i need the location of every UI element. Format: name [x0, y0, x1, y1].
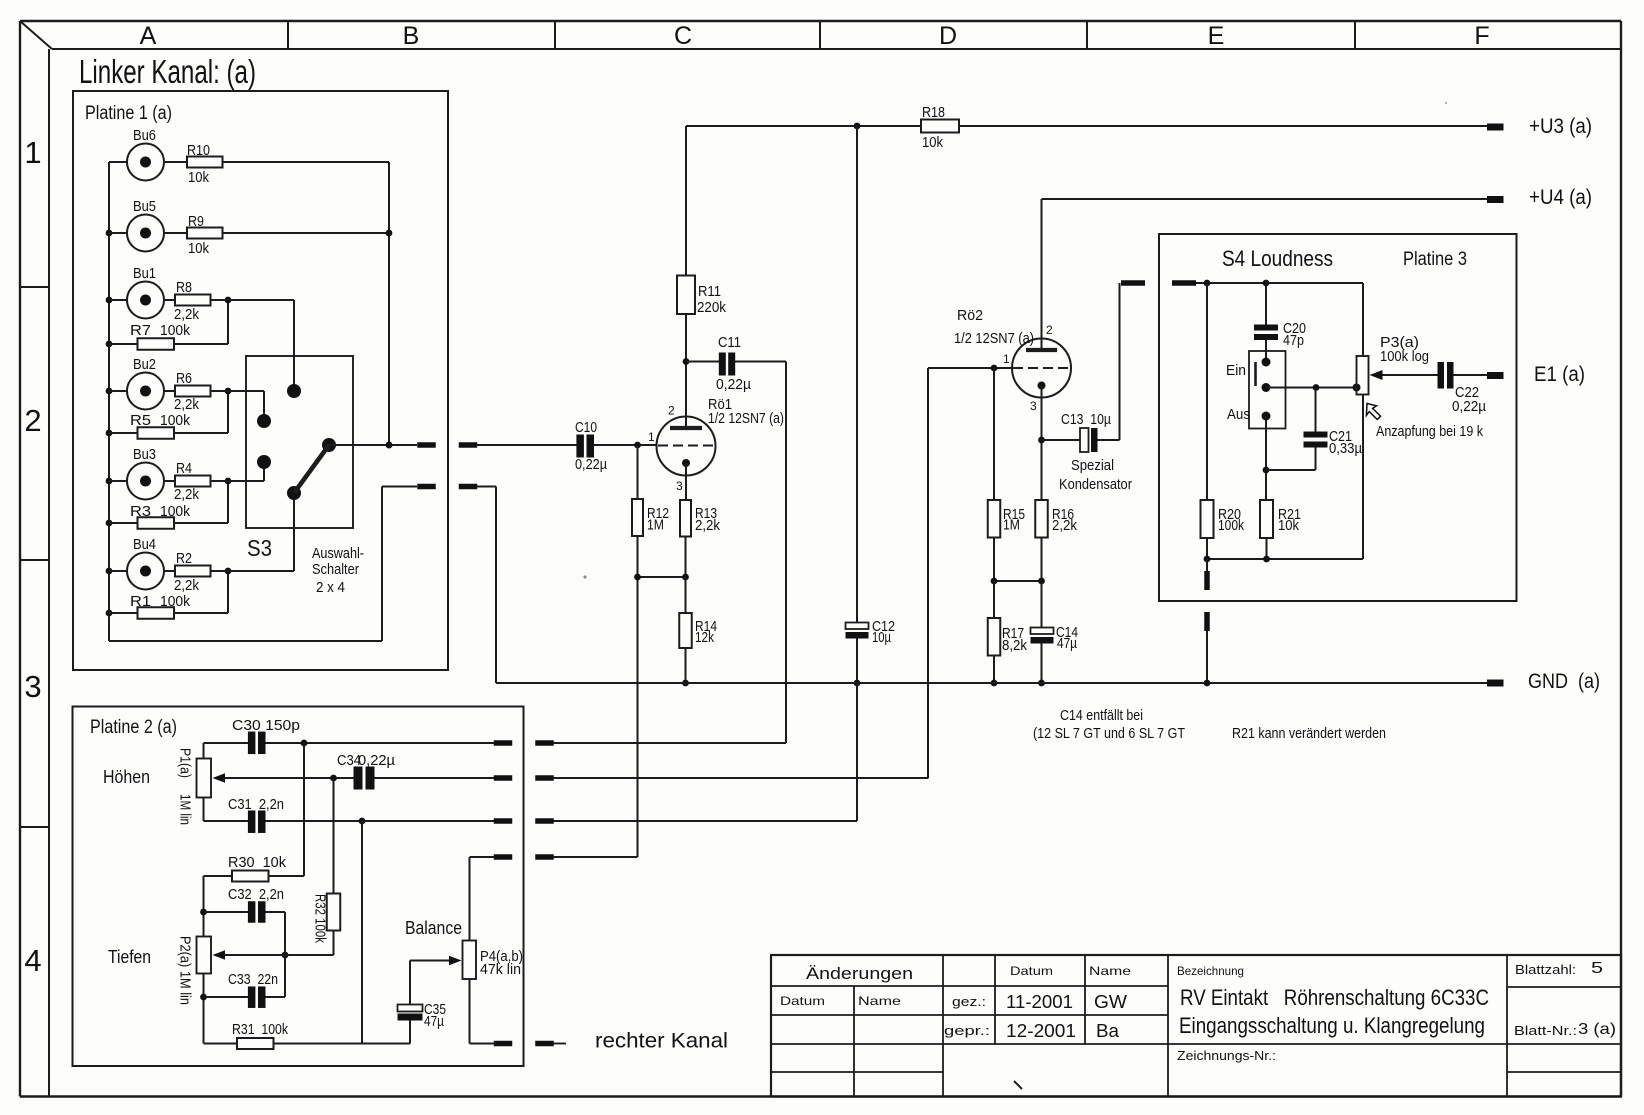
svg-text:3: 3: [676, 479, 683, 493]
svg-text:C11: C11: [718, 335, 741, 351]
svg-text:47k lin: 47k lin: [480, 962, 521, 978]
svg-text:Linker Kanal: (a): Linker Kanal: (a): [79, 53, 256, 90]
svg-text:R11: R11: [698, 284, 721, 300]
svg-text:47µ: 47µ: [1057, 636, 1078, 652]
svg-text:Kondensator: Kondensator: [1059, 477, 1132, 493]
svg-text:2,2k: 2,2k: [174, 397, 200, 413]
svg-text:Name: Name: [1089, 964, 1131, 978]
svg-text:1: 1: [648, 430, 655, 444]
svg-text:10k: 10k: [922, 135, 944, 151]
svg-text:Höhen: Höhen: [103, 767, 150, 787]
svg-text:R4: R4: [176, 461, 192, 477]
svg-text:R6: R6: [176, 371, 192, 387]
svg-text:1: 1: [24, 135, 41, 170]
svg-text:R18: R18: [922, 105, 945, 121]
svg-text:Schalter: Schalter: [312, 561, 359, 578]
svg-text:100k: 100k: [160, 594, 191, 610]
svg-text:100k: 100k: [160, 323, 191, 339]
svg-text:100k: 100k: [160, 413, 191, 429]
svg-text:100k log: 100k log: [1380, 349, 1429, 365]
svg-text:Anzapfung bei 19 k: Anzapfung bei 19 k: [1376, 424, 1484, 440]
svg-text:Aus: Aus: [1227, 407, 1250, 423]
svg-text:Änderungen: Änderungen: [806, 964, 913, 983]
svg-text:Bezeichnung: Bezeichnung: [1177, 964, 1244, 978]
svg-text:0,22µ: 0,22µ: [716, 377, 752, 393]
svg-text:1/2 12SN7 (a): 1/2 12SN7 (a): [954, 331, 1034, 347]
svg-text:Bu4: Bu4: [133, 537, 156, 553]
svg-text:F: F: [1474, 22, 1489, 50]
svg-text:2: 2: [1046, 323, 1053, 337]
svg-text:Bu6: Bu6: [133, 128, 156, 144]
svg-text:S4 Loudness: S4 Loudness: [1222, 246, 1333, 271]
svg-text:Rö2: Rö2: [957, 308, 983, 324]
svg-text:+U3 (a): +U3 (a): [1529, 115, 1592, 138]
svg-text:rechter Kanal: rechter Kanal: [595, 1030, 728, 1053]
svg-text:P1(a): P1(a): [177, 748, 193, 778]
svg-text:100k: 100k: [160, 504, 191, 520]
svg-text:12-2001: 12-2001: [1006, 1021, 1076, 1041]
svg-text:1M lin: 1M lin: [177, 794, 193, 825]
svg-text:C31 2,2n: C31 2,2n: [228, 797, 284, 813]
svg-text:2,2k: 2,2k: [1052, 518, 1078, 534]
svg-text:B: B: [403, 22, 420, 50]
svg-text:C32 2,2n: C32 2,2n: [228, 887, 284, 903]
svg-text:R7: R7: [130, 323, 151, 339]
svg-text:12k: 12k: [695, 630, 715, 646]
svg-text:C10: C10: [575, 420, 597, 436]
svg-text:Bu3: Bu3: [133, 447, 156, 463]
svg-text:Blattzahl:: Blattzahl:: [1515, 963, 1576, 977]
svg-text:R32 100k: R32 100k: [312, 894, 328, 944]
svg-text:R30 10k: R30 10k: [228, 855, 287, 871]
svg-text:0,22µ: 0,22µ: [358, 753, 396, 769]
svg-text:Ein: Ein: [1226, 363, 1246, 379]
svg-text:R2: R2: [176, 551, 192, 567]
svg-text:100k: 100k: [1218, 518, 1245, 534]
svg-text:GND (a): GND (a): [1528, 670, 1600, 693]
svg-text:Blatt-Nr.:: Blatt-Nr.:: [1514, 1024, 1577, 1038]
svg-text:R10: R10: [187, 143, 210, 159]
svg-text:R1: R1: [130, 594, 151, 610]
svg-text:R5: R5: [130, 413, 151, 429]
svg-text:C14 entfällt bei: C14 entfällt bei: [1060, 708, 1143, 724]
svg-text:gez.:: gez.:: [952, 995, 986, 1009]
svg-text:2,2k: 2,2k: [174, 487, 200, 503]
svg-text:2,2k: 2,2k: [174, 578, 200, 594]
svg-text:D: D: [939, 22, 957, 50]
svg-text:R8: R8: [176, 280, 192, 296]
svg-text:Spezial: Spezial: [1071, 458, 1114, 474]
svg-text:2,2k: 2,2k: [695, 518, 721, 534]
svg-text:1M: 1M: [647, 518, 664, 534]
svg-text:A: A: [140, 22, 157, 50]
svg-text:R3: R3: [130, 504, 151, 520]
svg-text:11-2001: 11-2001: [1006, 992, 1073, 1012]
svg-text:0,33µ: 0,33µ: [1329, 441, 1363, 457]
svg-text:E: E: [1208, 22, 1225, 50]
svg-text:220k: 220k: [697, 300, 727, 316]
svg-text:10k: 10k: [188, 241, 210, 257]
svg-text:Zeichnungs-Nr.:: Zeichnungs-Nr.:: [1177, 1049, 1276, 1063]
svg-text:47p: 47p: [1283, 333, 1304, 349]
svg-text:P2(a) 1M lin: P2(a) 1M lin: [177, 936, 193, 1005]
svg-text:C30 150p: C30 150p: [232, 718, 300, 734]
svg-text:10k: 10k: [1278, 518, 1300, 534]
svg-text:1: 1: [1003, 352, 1010, 366]
svg-text:0,22µ: 0,22µ: [575, 457, 608, 473]
svg-text:Name: Name: [858, 994, 901, 1008]
svg-text:RV Eintakt Röhrenschaltung 6: RV Eintakt Röhrenschaltung 6C33C: [1180, 985, 1489, 1010]
svg-text:GW: GW: [1094, 992, 1127, 1012]
svg-text:Platine 3: Platine 3: [1403, 249, 1467, 270]
svg-text:1/2 12SN7 (a): 1/2 12SN7 (a): [708, 411, 784, 427]
svg-text:10µ: 10µ: [872, 630, 891, 646]
svg-text:3: 3: [24, 669, 41, 704]
svg-text:R31 100k: R31 100k: [232, 1022, 289, 1038]
svg-text:S3: S3: [247, 535, 272, 561]
svg-text:Balance: Balance: [405, 918, 462, 938]
svg-text:C33 22n: C33 22n: [228, 972, 278, 988]
svg-text:(12 SL 7 GT und 6 SL 7 GT: (12 SL 7 GT und 6 SL 7 GT: [1033, 726, 1185, 742]
svg-text:R9: R9: [188, 214, 204, 230]
svg-text:E1 (a): E1 (a): [1534, 363, 1585, 386]
svg-text:C13 10µ: C13 10µ: [1061, 412, 1112, 428]
svg-text:Tiefen: Tiefen: [108, 947, 151, 967]
svg-text:2: 2: [668, 404, 675, 418]
svg-text:Bu5: Bu5: [133, 199, 156, 215]
svg-text:+U4 (a): +U4 (a): [1529, 186, 1592, 209]
svg-text:0,22µ: 0,22µ: [1452, 399, 1487, 415]
svg-text:Platine 1 (a): Platine 1 (a): [85, 103, 172, 124]
svg-text:Datum: Datum: [780, 994, 825, 1008]
svg-text:C: C: [674, 22, 692, 50]
svg-text:2: 2: [24, 403, 41, 438]
svg-text:Ba: Ba: [1096, 1021, 1120, 1041]
svg-text:2 x 4: 2 x 4: [316, 579, 345, 596]
svg-text:Eingangsschaltung u. Klangrege: Eingangsschaltung u. Klangregelung: [1179, 1013, 1485, 1038]
svg-text:gepr.:: gepr.:: [944, 1024, 990, 1038]
svg-text:3 (a): 3 (a): [1578, 1021, 1616, 1038]
svg-text:5: 5: [1591, 960, 1603, 977]
svg-text:10k: 10k: [188, 170, 210, 186]
svg-text:1M: 1M: [1003, 518, 1020, 534]
svg-text:3: 3: [1030, 399, 1037, 413]
svg-text:2,2k: 2,2k: [174, 307, 200, 323]
svg-text:Bu2: Bu2: [133, 357, 156, 373]
svg-text:47µ: 47µ: [424, 1014, 445, 1030]
svg-text:R21 kann verändert werden: R21 kann verändert werden: [1232, 726, 1386, 742]
svg-text:Platine 2 (a): Platine 2 (a): [90, 717, 177, 738]
svg-text:Auswahl-: Auswahl-: [312, 545, 364, 562]
svg-text:4: 4: [24, 943, 41, 978]
svg-text:Bu1: Bu1: [133, 266, 156, 282]
svg-text:8,2k: 8,2k: [1002, 638, 1028, 654]
svg-text:Datum: Datum: [1010, 964, 1053, 978]
